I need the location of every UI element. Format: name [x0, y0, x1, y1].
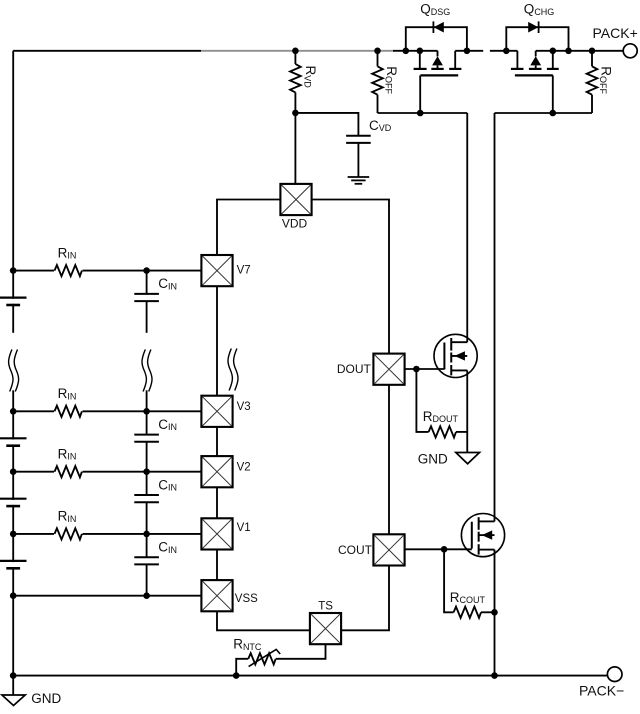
wire: chain V2-V1 — [216, 487, 218, 518]
battery cell 2 — [0, 438, 27, 445]
wire: C_IN column segment 3 — [146, 472, 148, 534]
junction dot C_IN column row V7 — [143, 267, 150, 274]
resistor R_VD label — [303, 66, 318, 89]
break in battery column (wire gap) — [10, 333, 16, 391]
wire: R_VD node to C_VD — [295, 113, 358, 136]
battery cell 4 — [0, 561, 27, 568]
pin V3 label — [237, 401, 251, 413]
junction dot rail/R_OFF1 — [374, 48, 381, 55]
driver MOSFET M1 body line — [451, 355, 467, 357]
transistor Q_CHG source terminal (from rail corner) — [516, 51, 518, 68]
break symbol C_IN column — [142, 350, 152, 392]
junction dot Q_DSG gate node — [417, 110, 424, 117]
wire: cell tap row V3 — [13, 410, 201, 412]
pin box VSS — [201, 580, 232, 611]
battery cell 3 — [0, 499, 27, 506]
pin box VDD — [280, 184, 311, 215]
pin box DOUT — [373, 354, 404, 385]
node GND label (driver) — [418, 451, 448, 466]
pin VDD label — [282, 217, 308, 231]
junction dot rail/R_OFF2 — [589, 48, 596, 55]
diode D2 (Q_CHG body diode) loop wire — [506, 27, 568, 51]
svg-text:VSS: VSS — [235, 593, 258, 605]
junction dot COUT/R_COUT — [441, 546, 448, 553]
svg-text:COUT: COUT — [338, 543, 373, 557]
resistor R_NTC (thermistor) — [236, 653, 276, 675]
resistor R_DOUT — [416, 369, 467, 438]
wire: M2 source to PACK- rail — [494, 550, 496, 676]
wire: top rail segment Q_CHG left — [490, 50, 518, 52]
ground symbol (earth) below C_VD — [348, 177, 370, 184]
junction dot battery column row V2 — [10, 468, 17, 475]
thermistor diagonal stroke — [249, 649, 281, 666]
driver MOSFET M1 body arrow — [454, 351, 465, 360]
capacitor C_IN (row 4) — [134, 557, 159, 564]
pin DOUT label — [337, 362, 372, 376]
capacitor C_IN (row 3) — [134, 495, 159, 502]
resistor R_IN (row V1) — [54, 527, 83, 541]
transistor Q_CHG backgate contact bar — [529, 65, 542, 69]
transistor Q_CHG drain terminal — [552, 51, 554, 68]
resistor R_COUT label — [450, 590, 486, 605]
wire: chain V1-VSS — [216, 550, 218, 581]
resistor R_IN label (row V3) — [58, 386, 77, 401]
junction dot battery column row V7 — [10, 267, 17, 274]
svg-text:GND: GND — [418, 451, 448, 466]
wire: chain V3-V2 — [216, 427, 218, 456]
diode D2 cathode bar — [538, 21, 540, 33]
driver MOSFET M2 channel dashes — [478, 517, 480, 554]
capacitor C_VD label — [369, 118, 392, 133]
junction dot C_IN column row V2 — [143, 468, 150, 475]
capacitor C_IN label (row 1) — [158, 276, 177, 291]
wire: Q_CHG gate to gate node — [552, 75, 554, 113]
driver MOSFET M1 channel dashes — [450, 338, 452, 375]
wire: Q_DSG gate node down to DOUT driver — [466, 113, 468, 342]
node PACK- label — [579, 683, 624, 699]
junction dot R_NTC/bottom rail — [233, 672, 240, 679]
svg-text:PACK−: PACK− — [579, 683, 624, 699]
resistor R_IN label (row V2) — [58, 446, 77, 461]
transistor Q_DSG source terminal — [419, 51, 421, 68]
diode D1 triangle — [434, 22, 444, 33]
driver MOSFET M2 body arrow — [482, 530, 492, 539]
junction dot C_IN column VSS row — [143, 592, 150, 599]
junction dot rail/R_VD — [292, 48, 299, 55]
driver MOSFET M2 gate bar — [471, 522, 473, 549]
ground symbol (triangle) bottom left — [2, 695, 25, 706]
diode D2 triangle — [528, 22, 538, 33]
node PACK+ label — [593, 25, 638, 41]
pin box V1 — [201, 518, 232, 549]
wire: chain VSS-TS — [217, 611, 310, 630]
transistor Q_CHG backgate stub — [535, 51, 537, 57]
junction dot rail/Q_CHG drain — [550, 48, 557, 55]
wire: Q_CHG gate node horizontal — [495, 112, 593, 114]
junction dot battery column row V1 — [10, 531, 17, 538]
ground symbol (triangle) below M1 — [456, 453, 480, 464]
driver MOSFET M1 source line — [451, 369, 467, 371]
capacitor C_VD — [346, 136, 371, 143]
transistor Q_DSG source contact bar — [414, 68, 427, 70]
wire: COUT chain down to TS — [341, 566, 389, 631]
driver MOSFET M2 body line — [479, 534, 495, 536]
wire: VDD pin to DOUT chain — [312, 200, 389, 354]
resistor R_OFF1 — [372, 51, 383, 113]
svg-text:TS: TS — [318, 601, 333, 613]
junction dot battery column row V3 — [10, 408, 17, 415]
transistor Q_CHG label — [524, 2, 555, 17]
junction dot rail/diode left — [403, 48, 410, 55]
pin box COUT — [373, 534, 404, 565]
driver MOSFET M2 source line — [479, 549, 495, 551]
capacitor C_IN (row 1) — [134, 294, 159, 301]
resistor R_COUT — [444, 549, 494, 618]
transistor Q_CHG source contact bar — [511, 68, 524, 70]
wire: top rail segment Q_CHG right to PACK+ — [536, 50, 624, 52]
resistor R_OFF2 — [587, 51, 598, 113]
driver MOSFET M2 drain line — [479, 520, 495, 522]
junction dot Q_CHG gate node — [550, 110, 557, 117]
resistor R_IN label (row V1) — [58, 509, 77, 524]
junction dot rail/diode2 left — [503, 48, 510, 55]
transistor Q_CHG gate bar — [515, 74, 553, 76]
wire: cell tap row V7 — [13, 270, 201, 272]
junction dot C_IN column row V1 — [143, 531, 150, 538]
diode D1 cathode bar — [432, 21, 434, 33]
transistor Q_CHG body arrow — [530, 56, 541, 65]
wire: C_IN column segment 4 — [146, 534, 148, 596]
svg-text:V2: V2 — [237, 461, 251, 473]
pin box V3 — [201, 396, 232, 427]
wire: top rail black segment to Q_DSG — [393, 50, 438, 52]
resistor R_IN (row V3) — [54, 404, 83, 418]
pin V7 label — [237, 265, 251, 277]
wire: C_IN column segment 2 — [146, 411, 148, 471]
pin TS label — [318, 601, 333, 613]
wire: R_VD node to VDD pin — [294, 113, 296, 184]
break symbol battery column — [9, 350, 19, 392]
wire: DOUT pin to driver gate — [405, 368, 445, 370]
wire: Q_CHG gate node down to COUT driver — [494, 113, 496, 521]
pin box V7 — [201, 255, 232, 286]
resistor R_OFF2 label — [598, 66, 613, 94]
pin V2 label — [237, 461, 251, 473]
transistor Q_DSG backgate stub — [437, 51, 439, 57]
driver MOSFET M1 gate bar — [443, 343, 445, 370]
wire: bottom rail to GND symbol — [12, 676, 14, 695]
transistor Q_DSG drain terminal — [454, 51, 456, 68]
wire: left vertical rail (battery+ to GND) — [12, 51, 14, 676]
svg-text:DOUT: DOUT — [337, 362, 372, 376]
battery cell 1 — [0, 298, 27, 305]
break in C_IN column (wire gap) — [144, 333, 150, 391]
node GND label (bottom left) — [31, 691, 61, 706]
resistor R_IN label (row V7) — [58, 245, 77, 260]
svg-text:V1: V1 — [237, 522, 251, 534]
wire: top rail segment Q_DSG right — [455, 50, 483, 52]
wire: VSS row — [13, 595, 201, 597]
junction dot battery-/bottom rail — [10, 672, 17, 679]
junction dot M2 source/bottom rail — [491, 672, 498, 679]
transistor Q_DSG body arrow — [432, 56, 443, 65]
junction dot C_IN column row V3 — [143, 408, 150, 415]
transistor Q_CHG drain contact bar — [547, 68, 559, 70]
svg-text:V7: V7 — [237, 265, 251, 277]
pin COUT label — [338, 543, 373, 557]
node PACK+ terminal circle — [623, 44, 637, 58]
junction dot R_COUT/M2 source — [491, 609, 498, 616]
wire: bottom rail (PACK-) — [13, 675, 607, 677]
wire: DOUT-COUT chain — [388, 385, 390, 535]
resistor R_VD — [290, 51, 301, 113]
svg-text:V3: V3 — [237, 401, 251, 413]
wire: C_IN column segment 1 — [146, 271, 148, 412]
driver MOSFET M1 drain line — [451, 341, 467, 343]
wire: cell tap row V2 — [13, 471, 201, 473]
diode D1 (Q_DSG body diode) loop wire — [406, 27, 467, 51]
capacitor C_IN label (row 2) — [158, 417, 177, 432]
wire: chain V7-V3 — [216, 286, 218, 397]
resistor R_NTC label — [233, 637, 262, 652]
transistor Q_DSG label — [420, 2, 450, 17]
capacitor C_IN label (row 4) — [158, 540, 177, 555]
node PACK- terminal circle — [607, 667, 622, 682]
wire: VDD pin to V7 chain — [217, 200, 280, 255]
pin box TS — [310, 613, 341, 644]
pin box V2 — [201, 456, 232, 487]
wire: Q_DSG gate node horizontal — [378, 112, 468, 114]
junction dot battery column VSS row — [10, 592, 17, 599]
wire: COUT pin to driver gate — [405, 548, 472, 550]
pin V1 label — [237, 522, 251, 534]
wire: TS pin to R_NTC — [276, 644, 326, 659]
pin VSS label — [235, 593, 258, 605]
junction dot rail/diode2 right — [565, 48, 572, 55]
svg-text:VDD: VDD — [282, 217, 308, 231]
driver MOSFET M2 circle — [461, 514, 504, 557]
resistor R_DOUT label — [423, 409, 459, 424]
transistor Q_DSG drain contact bar — [449, 68, 461, 70]
wire: Q_DSG gate to gate node — [419, 75, 421, 113]
wire: top rail gray segment — [201, 50, 393, 52]
driver MOSFET M1 circle — [434, 334, 477, 377]
transistor Q_DSG backgate contact bar — [431, 65, 443, 69]
capacitor C_IN (row 2) — [134, 435, 159, 442]
junction dot DOUT/R_DOUT — [413, 366, 420, 373]
transistor Q_DSG gate bar — [420, 74, 458, 76]
junction dot rail/Q_DSG source — [417, 48, 424, 55]
wire: top rail from left corner (black segment) — [13, 50, 201, 52]
wire: cell tap row V1 — [13, 533, 201, 535]
break symbol beside chain (V7-V3) — [228, 349, 238, 391]
resistor R_IN (row V2) — [54, 465, 83, 479]
capacitor C_IN label (row 3) — [158, 477, 177, 492]
resistor R_OFF1 label — [384, 66, 399, 94]
svg-text:GND: GND — [31, 691, 61, 706]
resistor R_IN (row V7) — [54, 264, 83, 278]
wire: M1 source to GND — [466, 370, 468, 452]
junction dot R_VD bottom node — [292, 110, 299, 117]
junction dot rail/diode right — [464, 48, 471, 55]
svg-text:PACK+: PACK+ — [593, 25, 638, 41]
wire: C_VD to ground — [357, 143, 359, 177]
